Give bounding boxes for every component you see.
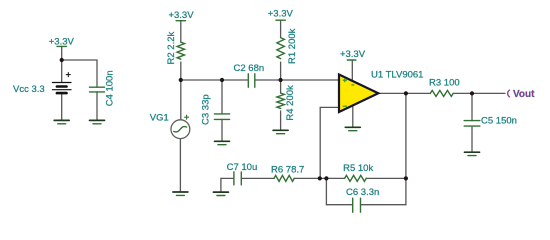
svg-text:R1 200k: R1 200k [287, 28, 298, 64]
svg-text:C5 150n: C5 150n [481, 115, 517, 126]
svg-text:VG1: VG1 [150, 113, 169, 124]
svg-text:C4 100n: C4 100n [105, 70, 116, 106]
svg-text:C7 10u: C7 10u [227, 162, 258, 173]
svg-text:+3.3V: +3.3V [268, 8, 294, 19]
svg-text:C6 3.3n: C6 3.3n [346, 187, 379, 198]
svg-text:Vcc 3.3: Vcc 3.3 [13, 84, 45, 95]
svg-text:U1 TLV9061: U1 TLV9061 [371, 70, 423, 81]
svg-text:R6 78.7: R6 78.7 [271, 164, 304, 175]
svg-text:R4 200k: R4 200k [285, 85, 296, 121]
svg-text:C3 33p: C3 33p [201, 94, 212, 125]
svg-text:C2 68n: C2 68n [234, 63, 265, 74]
svg-text:Vout: Vout [513, 89, 535, 100]
svg-text:+3.3V: +3.3V [340, 49, 366, 60]
svg-text:+3.3V: +3.3V [168, 10, 194, 21]
svg-text:R2 2.2k: R2 2.2k [166, 32, 177, 65]
svg-text:R5 10k: R5 10k [343, 163, 373, 174]
svg-text:R3 100: R3 100 [429, 78, 460, 89]
svg-text:+3.3V: +3.3V [49, 36, 75, 47]
